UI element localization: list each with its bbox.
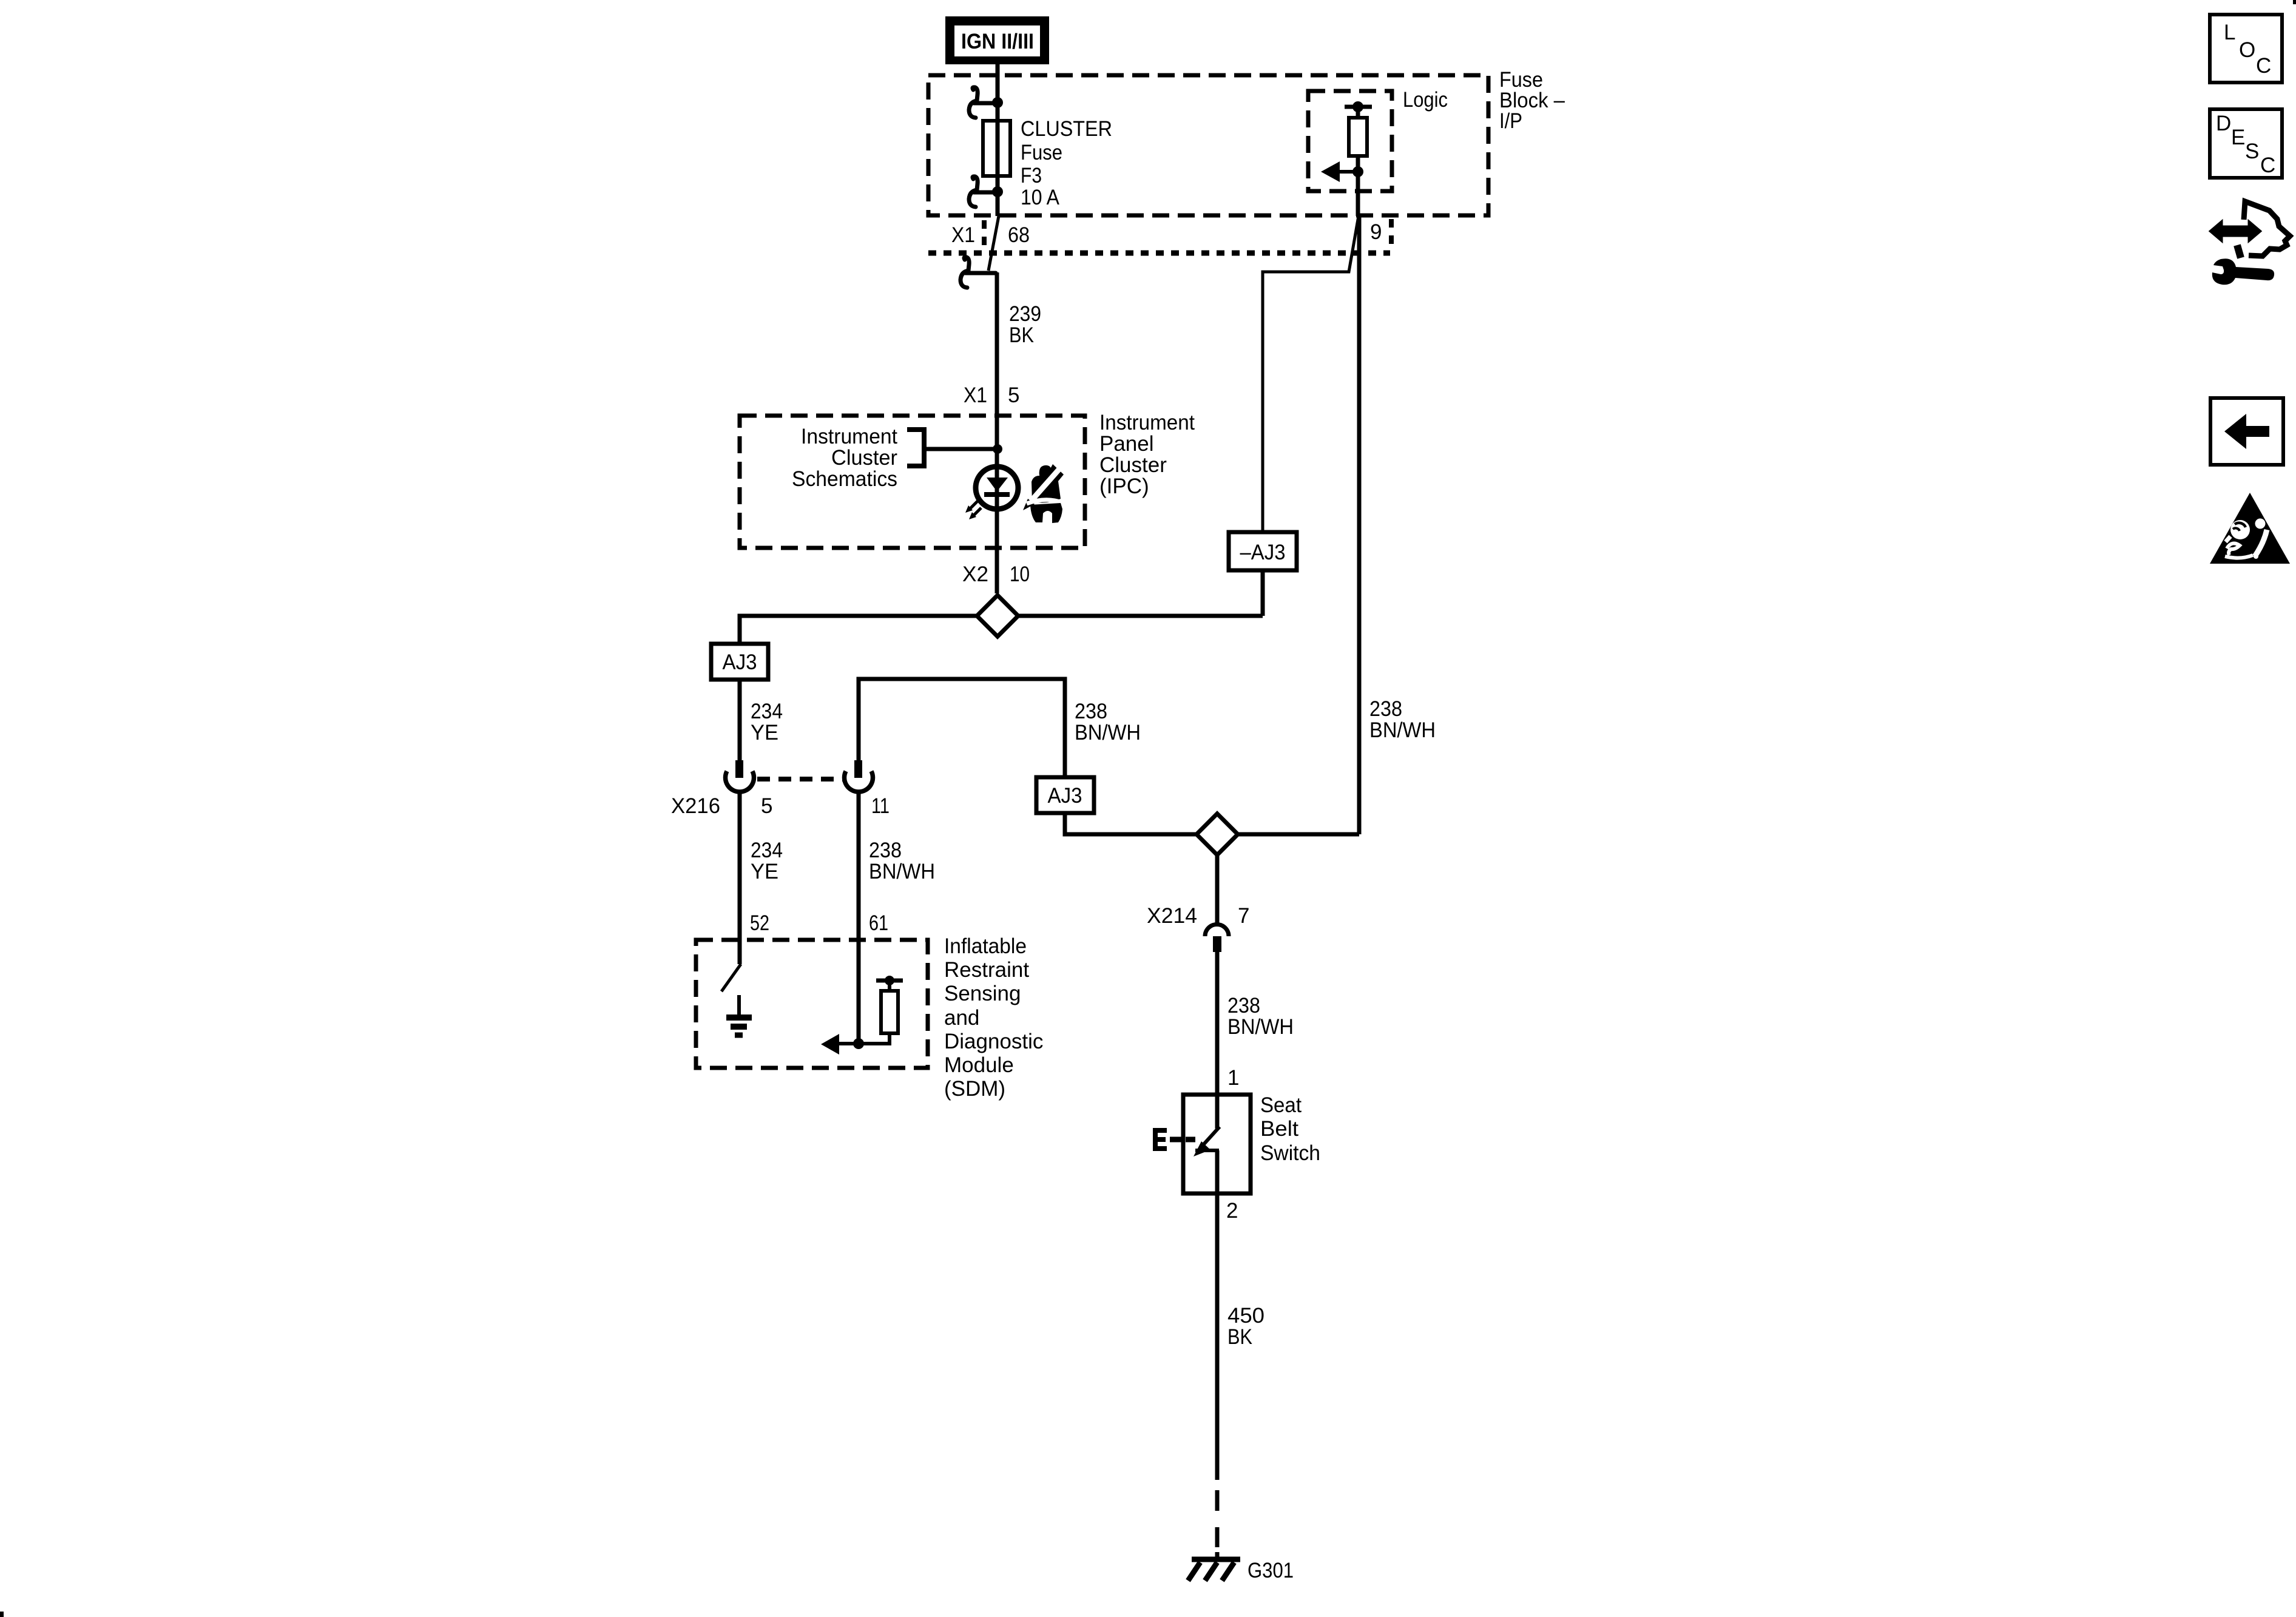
Logic dashed box [1308,91,1392,191]
dashed wire to G301 [1215,1490,1220,1511]
wire bracket to LED node [924,447,998,451]
svg-text:BN/WH: BN/WH [1369,718,1436,742]
wire 238 BN/WH from pin 9 down to splice [1357,216,1362,834]
back arrow reference box [2210,398,2283,465]
LED light arrow 1 [970,500,979,509]
connector pin 9 tick mark [1389,219,1394,246]
junction dot at LED anode node [993,444,1002,454]
svg-text:Seat: Seat [1260,1093,1302,1117]
seat belt indicator LED circle [976,467,1018,509]
svg-text:BN/WH: BN/WH [869,860,935,883]
svg-text:I/P: I/P [1499,109,1522,133]
wire jog at connector X1 pin 68 [988,216,999,271]
svg-text:238: 238 [1227,994,1260,1018]
SIR caution triangle icon [2210,493,2290,564]
connector X214 pin 7 male stub [1213,936,1221,952]
logic element lower junction dot [1352,166,1363,177]
wire splice to corner from 238 BN/WH main [1238,832,1359,837]
fuse clip terminal upper [969,87,998,118]
seat belt switch fixed contact [1195,1149,1219,1152]
SDM junction dot [853,1038,864,1049]
svg-text:Cluster: Cluster [1099,453,1167,477]
svg-text:O: O [2239,38,2255,62]
svg-text:BN/WH: BN/WH [1075,721,1141,744]
wire splice rail left [740,616,977,644]
svg-text:239: 239 [1009,302,1041,326]
svg-text:CLUSTER: CLUSTER [1021,117,1112,141]
svg-text:Inflatable: Inflatable [944,934,1027,958]
svg-text:E: E [2231,126,2245,149]
wire branch jog at pin 9 [1263,216,1359,532]
svg-text:C: C [2260,154,2275,177]
svg-text:Schematics: Schematics [792,467,897,491]
logic element top bar [1345,105,1372,109]
svg-text:–AJ3: –AJ3 [1240,541,1286,564]
wire splice down to X214 [1215,855,1220,925]
seat belt switch arm [1202,1127,1220,1146]
terminal clip at X1 pin 68 [961,257,996,288]
svg-text:Diagnostic: Diagnostic [944,1030,1043,1053]
fuse clip terminal lower [969,177,998,207]
svg-text:450: 450 [1227,1304,1264,1328]
svg-text:Logic: Logic [1403,88,1448,112]
SDM arrow [839,1042,859,1045]
connector X216 pin 5 female arc [726,771,754,792]
logic element arrow to pin 9 [1339,170,1358,174]
svg-text:Switch: Switch [1260,1141,1320,1165]
svg-text:68: 68 [1008,223,1030,247]
svg-text:X2: X2 [962,562,988,586]
wire 234 YE lower to SDM pin 52 [738,792,742,964]
ground G301 symbol [1192,1557,1240,1562]
wire AJ3 to splice diamond lower [1065,813,1196,834]
svg-text:D: D [2216,112,2231,135]
seat belt switch box [1183,1095,1251,1193]
E engagement dashes [1170,1137,1195,1143]
wire logic element [1356,107,1360,216]
LED light arrow 2 [973,508,981,516]
svg-text:238: 238 [1369,697,1402,721]
connector X216 pin 5 male stub [735,760,743,778]
wire SDM pin 61 sense [857,964,861,1044]
svg-text:238: 238 [869,839,902,862]
connector end view icon wrench [2212,258,2274,285]
svg-text:10: 10 [1010,562,1030,586]
svg-text:11: 11 [871,794,890,818]
svg-text:AJ3: AJ3 [723,650,757,674]
SDM pull-up bar [876,979,903,983]
scan artifact dots [2293,0,2296,4]
splice pack AJ3 box (left) [711,644,768,680]
svg-text:Sensing: Sensing [944,982,1021,1005]
connector end view icon outline [2244,201,2290,256]
splice diamond (lower) [1197,814,1238,855]
svg-text:234: 234 [751,839,783,862]
wire splice rail right [1018,614,1263,618]
splice pack -AJ3 box [1229,532,1297,570]
connector X1 tick mark [982,220,987,247]
svg-text:Restraint: Restraint [944,958,1029,982]
splice diamond AJ3 (upper) [977,595,1018,636]
svg-text:Belt: Belt [1260,1117,1298,1141]
label switch engagement E [1153,1128,1167,1151]
svg-text:Instrument: Instrument [1099,411,1195,434]
svg-text:X1: X1 [951,223,975,247]
svg-text:G301: G301 [1248,1559,1294,1582]
svg-text:(IPC): (IPC) [1099,474,1149,498]
wire pin 1 inside switch [1215,1092,1220,1129]
svg-text:52: 52 [750,911,769,935]
svg-text:238: 238 [1075,700,1107,723]
svg-text:2: 2 [1226,1199,1238,1223]
fuse block I/P dashed box [928,75,1488,215]
connector X1 plane dotted line [928,251,1390,256]
svg-text:1: 1 [1227,1066,1239,1090]
svg-text:10 A: 10 A [1021,186,1060,209]
wire 238 BN/WH to seat belt switch pin 1 [1215,952,1220,1129]
logic element resistor [1349,118,1367,156]
svg-text:Module: Module [944,1053,1014,1077]
wire switch pin 2 to ground 450 BK [1215,1150,1220,1480]
splice pack AJ3 box (right) [1036,777,1094,813]
svg-text:5: 5 [1008,383,1019,407]
SDM pull-up junction dot [885,976,894,985]
LOC reference box [2210,15,2282,83]
svg-text:L: L [2224,21,2235,44]
svg-text:BK: BK [1009,323,1034,347]
svg-text:BN/WH: BN/WH [1227,1015,1294,1039]
fuse F3 body [983,121,1010,176]
svg-text:61: 61 [869,911,888,935]
svg-text:Instrument: Instrument [801,425,897,448]
SDM internal ground stub [737,995,741,1014]
svg-text:BK: BK [1227,1325,1252,1349]
DESC reference box [2210,109,2282,178]
svg-text:S: S [2245,140,2259,163]
connector X216 plane dashed line [757,777,843,781]
SDM dashed box [696,940,928,1068]
svg-text:IGN II/III: IGN II/III [961,30,1034,53]
LED diode triangle [987,478,1008,491]
svg-text:234: 234 [751,700,783,723]
SDM ground switch wire pin 52 [721,964,741,991]
SDM sense resistor leg [859,981,890,1044]
svg-text:X1: X1 [964,383,987,407]
svg-text:AJ3: AJ3 [1048,784,1082,808]
seat belt telltale icon [1023,464,1064,523]
connector X214 pin 7 female arc [1205,925,1229,937]
logic element top junction dot [1352,101,1363,112]
svg-text:9: 9 [1370,220,1382,244]
IGN II/III power label box [945,16,1049,64]
LED cathode bar [984,492,1010,497]
SDM sense resistor [881,991,898,1033]
connector end view icon double arrow [2210,221,2261,241]
junction dot above fuse [992,97,1003,108]
svg-text:5: 5 [761,794,772,818]
SDM internal ground symbol [726,1014,752,1021]
connector X216 pin 11 male stub [854,760,862,778]
wire through LED [995,467,999,593]
wire through fuse to fuse block bottom [996,121,1000,216]
svg-text:Panel: Panel [1099,432,1154,456]
wire IGN feed to fuse F3 [996,64,1000,121]
instrument cluster schematics bracket [907,430,924,466]
svg-text:X214: X214 [1147,904,1197,928]
svg-text:and: and [944,1006,979,1030]
svg-text:C: C [2256,54,2271,78]
svg-text:7: 7 [1238,904,1249,928]
svg-text:YE: YE [751,860,778,883]
wire 238 BN/WH from X216 pin 11 up and over to AJ3 [859,679,1065,964]
svg-text:F3: F3 [1021,164,1042,187]
wire 239 BK [995,272,999,467]
instrument panel cluster IPC dashed box [740,416,1085,548]
wire 234 YE upper [738,680,742,760]
svg-text:Fuse: Fuse [1021,141,1062,164]
svg-text:(SDM): (SDM) [944,1077,1005,1101]
svg-text:X216: X216 [671,794,720,818]
svg-text:YE: YE [751,721,778,744]
wire -AJ3 to splice rail [1261,570,1265,616]
svg-text:Cluster: Cluster [831,446,897,470]
connector X216 pin 11 female arc [845,771,873,792]
junction dot below fuse [992,186,1003,197]
